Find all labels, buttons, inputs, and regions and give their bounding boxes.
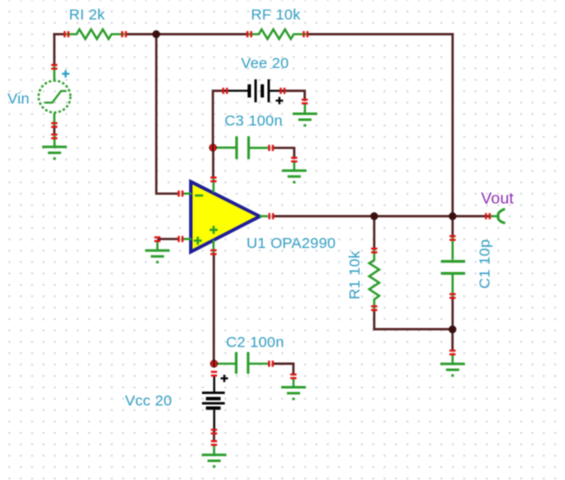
svg-text:Vout: Vout — [481, 190, 514, 207]
capacitor C2 100n — [215, 352, 269, 374]
pin marks Vcc bottom — [211, 429, 217, 435]
pin marks op-amp V- pin — [210, 177, 216, 183]
pin marks Vin top — [51, 64, 57, 70]
wire node C down to R1 — [373, 216, 375, 250]
wire RI to node A — [126, 33, 157, 35]
op-amp plus symbol (input) — [194, 237, 202, 245]
wire top rail to RI — [53, 33, 64, 35]
junction node B (Vee/C3/V- pin) — [209, 144, 217, 152]
op-amp V- top pin stub — [212, 178, 214, 193]
pin marks C2 left at node F — [211, 361, 217, 367]
junction node A (RI/RF/feedback) — [152, 30, 160, 38]
svg-text:RI 2k: RI 2k — [69, 7, 105, 24]
pin marks op-amp non-inverting input — [178, 236, 184, 242]
pin marks RI left — [64, 31, 70, 37]
pin marks RF right — [303, 31, 309, 37]
pin marks ground G5 pin — [449, 350, 455, 356]
capacitor C1 10p (vertical) — [441, 238, 465, 297]
resistor R1 10k (vertical) — [369, 250, 379, 309]
wire C3 right to ground G3 — [273, 147, 295, 159]
pin marks RF left — [246, 31, 252, 37]
junction node C (output/R1) — [370, 212, 378, 220]
wire node B to op-amp V- pin — [212, 148, 214, 178]
svg-text:R1 10k: R1 10k — [347, 250, 364, 299]
svg-text:Vin: Vin — [8, 91, 30, 108]
wire R1 bottom to node E — [373, 309, 454, 330]
wire op-amp output rail — [274, 215, 486, 217]
resistor RF 10k — [247, 29, 307, 39]
pin marks ground G4 pin — [154, 236, 160, 242]
pin marks C2 ground pin — [290, 373, 296, 379]
battery Vcc 20 (vertical) — [202, 377, 225, 432]
wire Vout lead — [485, 215, 492, 217]
op-amp U1 triangle — [191, 182, 260, 252]
svg-text:Vee 20: Vee 20 — [241, 55, 289, 72]
ground G1 (Vin) — [42, 136, 67, 159]
wire node D down to C1 — [451, 216, 453, 237]
op-amp inverting input stub — [182, 193, 192, 195]
Vin waveform glyph — [44, 91, 66, 103]
pin marks op-amp V+ pin — [210, 249, 216, 255]
wire Vin bottom gap — [53, 126, 55, 136]
wire ground corner to non-inverting input — [157, 238, 178, 240]
op-amp non-inverting input stub — [182, 238, 192, 240]
svg-text:Vcc 20: Vcc 20 — [125, 393, 172, 410]
pin marks op-amp inverting input — [178, 191, 184, 197]
svg-text:C1 10p: C1 10p — [476, 239, 493, 289]
pin marks Vin ground pin — [51, 134, 57, 140]
battery Vee 20 — [223, 79, 286, 102]
pin marks Vcc top pin — [211, 371, 217, 377]
capacitor C3 100n — [214, 136, 269, 159]
ground G7 (Vcc) — [202, 445, 227, 467]
svg-text:RF 10k: RF 10k — [251, 7, 301, 24]
pin marks Vcc ground pin — [211, 440, 217, 446]
output terminal Vout lead — [491, 215, 499, 217]
wire right rail down — [451, 33, 453, 216]
wire C1 bottom to node E — [451, 297, 453, 330]
wire op-amp V+ pin down to node F — [213, 253, 215, 365]
op-amp V+ bottom pin stub — [212, 240, 214, 253]
pin marks op-amp output — [268, 213, 274, 219]
junction node D (output/C1) — [449, 212, 457, 220]
wire Vin top to corner — [53, 33, 55, 65]
ground G3 (C3 right) — [282, 161, 307, 183]
Vin bottom lead — [53, 113, 55, 125]
svg-text:U1 OPA2990: U1 OPA2990 — [247, 235, 336, 252]
ground G4 (op-amp + input) — [145, 240, 170, 262]
svg-text:C3 100n: C3 100n — [225, 113, 283, 130]
op-amp minus symbol — [195, 194, 203, 196]
pin marks Vee left — [222, 88, 228, 94]
ground G2 (Vee right) — [293, 103, 318, 126]
pin marks R1 top — [371, 248, 377, 254]
wire Vcc bottom gap — [213, 432, 215, 443]
ground G6 (C2 right) — [281, 377, 306, 399]
svg-text:C2 100n: C2 100n — [226, 334, 284, 351]
voltage source Vin circle — [39, 81, 71, 113]
wire RF to top-right corner — [307, 33, 454, 35]
battery Vee plus sign — [276, 97, 283, 104]
pin marks Vout terminal — [485, 213, 491, 219]
pin marks Vee ground pin — [302, 99, 308, 105]
pin marks C3 right — [268, 145, 274, 151]
pin marks R1 bottom — [371, 305, 377, 311]
wire node A down to inverting input — [155, 34, 178, 195]
junction node F (C2/Vcc/V+ pin) — [210, 360, 218, 368]
pin marks C2 right — [268, 361, 274, 367]
junction node E (R1/C1 bottom) — [449, 326, 457, 334]
pin marks C3 ground pin — [291, 157, 297, 163]
wire node A to RF — [156, 33, 247, 35]
pin marks Vin bottom — [51, 122, 57, 128]
wire Vee right to ground G2 — [285, 90, 306, 101]
op-amp output stub — [260, 215, 269, 217]
pin marks Vee right — [280, 88, 286, 94]
output terminal Vout hook — [498, 209, 504, 223]
pin marks C1 bottom — [450, 293, 456, 299]
Vin polarity plus — [62, 70, 69, 77]
wire node E down to ground G5 — [451, 329, 453, 351]
battery Vcc plus sign — [221, 375, 228, 382]
wire C2 right to ground G6 — [273, 363, 295, 376]
pin marks C3 left at node B — [210, 145, 216, 151]
Vin top lead — [53, 65, 55, 80]
wire Vee left corner down to node B — [212, 90, 223, 148]
resistor RI 2k — [65, 29, 125, 39]
ground G5 (bottom right node) — [440, 354, 465, 376]
pin marks RI right — [121, 31, 127, 37]
pin marks C1 top — [450, 235, 456, 241]
op-amp plus symbol (supply) — [210, 226, 218, 234]
